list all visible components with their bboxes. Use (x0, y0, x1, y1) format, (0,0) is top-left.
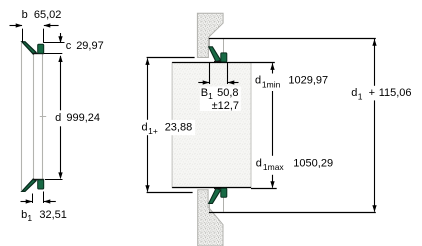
leader shaft top right (251, 62, 275, 64)
svg-text:b: b (21, 209, 27, 221)
dimension c : leaders (44, 42, 65, 44)
label d1 + 115,06 (350, 86, 414, 101)
shaft top edge (172, 62, 251, 64)
seal body outline left surface (21, 43, 23, 191)
top seal outline (209, 38, 211, 48)
leader housing bore bottom (147, 192, 193, 194)
svg-text:c: c (66, 40, 72, 52)
dimension d : line (60, 56, 62, 110)
bottom seal lip (209, 188, 221, 203)
d bottom leader (45, 179, 63, 181)
dimension c : top arrow (60, 33, 62, 43)
svg-text:d: d (142, 121, 148, 133)
shaft (172, 63, 251, 188)
svg-text:32,51: 32,51 (39, 209, 67, 221)
leader housing bore top (147, 57, 195, 59)
housing column top (197, 13, 223, 57)
svg-text:d: d (255, 75, 261, 87)
top seal lip (209, 47, 221, 62)
dimension b1 : extension lines (32, 194, 34, 204)
svg-text:115,06: 115,06 (379, 87, 412, 99)
seal body outline right surface (42, 54, 44, 180)
dimension d1+23,88 (147, 58, 149, 191)
svg-text:d: d (55, 112, 61, 124)
bottom block (38, 180, 44, 189)
dimension c/d shared up arrow (58, 55, 62, 62)
svg-text:29,97: 29,97 (76, 40, 104, 52)
svg-text:1+: 1+ (148, 126, 158, 136)
dimension b : extension lines (22, 29, 24, 43)
bottom seal top edge (214, 188, 227, 190)
svg-text:999,24: 999,24 (66, 112, 100, 124)
dimension b : arrows (10, 25, 23, 27)
svg-text:1029,97: 1029,97 (288, 75, 328, 87)
bottom seal outline (209, 202, 211, 212)
top block (38, 44, 44, 53)
B1 arrows (198, 82, 209, 84)
top profile bottom edge (33, 53, 44, 55)
housing column bottom (198, 190, 223, 246)
svg-text:d: d (351, 87, 357, 99)
svg-text:1max: 1max (263, 162, 285, 172)
svg-text:+: + (369, 87, 375, 99)
svg-text:±12,7: ±12,7 (212, 100, 239, 112)
label B1 50,8 ±12,7 (200, 87, 241, 112)
svg-text:1050,29: 1050,29 (293, 157, 333, 169)
svg-text:b: b (22, 9, 28, 21)
label d1min 1029,97 (254, 74, 329, 92)
leader shaft bottom right (251, 188, 277, 190)
seal body outline middle surface (33, 54, 35, 180)
top seal block (221, 53, 227, 62)
centerline tick (40, 116, 46, 118)
shaft bottom edge (172, 187, 251, 189)
svg-text:50,8: 50,8 (217, 87, 238, 99)
svg-text:23,88: 23,88 (165, 121, 193, 133)
svg-text:B: B (201, 87, 208, 99)
svg-text:1: 1 (358, 91, 363, 101)
top seal bottom edge (214, 61, 227, 63)
dimension d1 + 115,06 (374, 39, 376, 212)
svg-text:1: 1 (27, 213, 32, 223)
svg-text:d: d (256, 157, 262, 169)
bottom profile top edge (33, 179, 44, 181)
top lip (sealing lip) (22, 42, 36, 54)
dimension b1 : arrows (21, 201, 33, 203)
bottom lip (22, 179, 36, 191)
dimension d1min / d1max (272, 63, 274, 187)
leader seal top edge (209, 38, 376, 40)
svg-text:65,02: 65,02 (34, 9, 62, 21)
svg-text:1min: 1min (262, 79, 281, 89)
bottom seal block (221, 188, 227, 197)
leader seal bottom edge (209, 212, 376, 214)
label d1max 1050,29 (254, 156, 334, 175)
dimension B1 extension lines (209, 63, 211, 84)
